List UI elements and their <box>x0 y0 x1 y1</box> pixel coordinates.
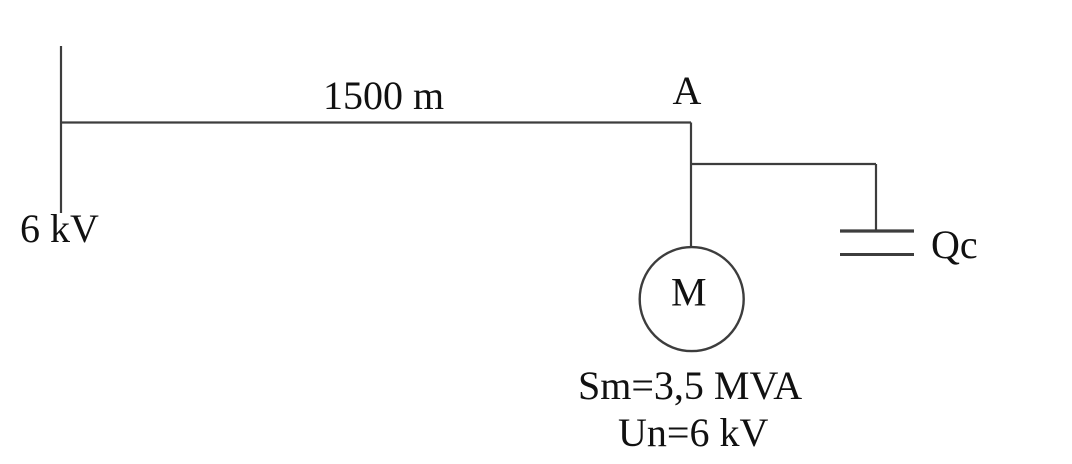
svg-text:A: A <box>673 68 702 113</box>
svg-text:Sm=3,5 MVA: Sm=3,5 MVA <box>578 363 802 408</box>
svg-text:Un=6 kV: Un=6 kV <box>618 410 768 455</box>
svg-text:Qc: Qc <box>931 222 978 267</box>
svg-text:M: M <box>671 270 707 315</box>
svg-text:1500 m: 1500 m <box>323 73 444 118</box>
svg-text:6 kV: 6 kV <box>20 206 99 251</box>
